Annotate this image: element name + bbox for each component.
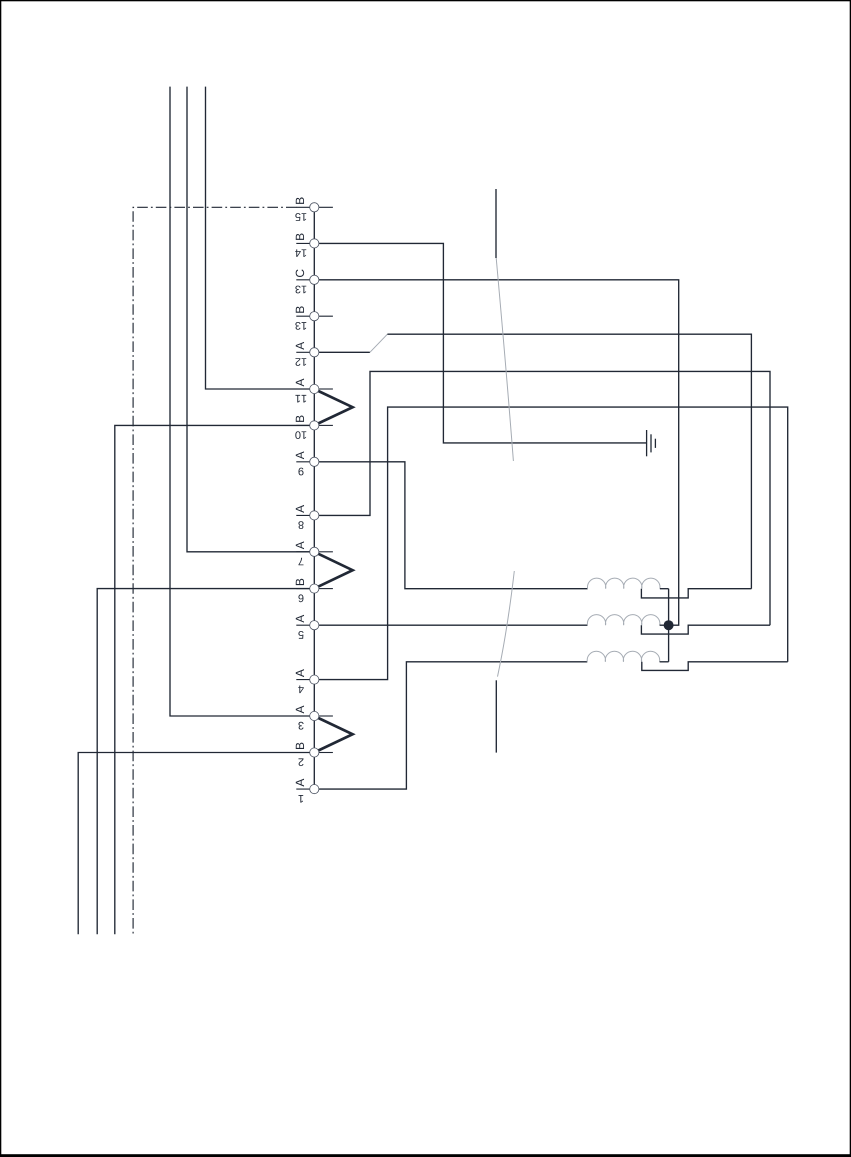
terminal TB1-4 (A) <box>296 669 319 693</box>
wire terminal 1 A to winding W3 left end <box>314 662 587 789</box>
winding W3 right lead to neutral link <box>660 661 669 663</box>
enclosure boundary (dash-dot chain line) <box>133 207 297 934</box>
terminal TB1-5 (A) <box>296 615 319 639</box>
connector chevron terminals 11-10 <box>318 389 353 425</box>
wire terminal 5 A to winding W2 left end <box>314 624 587 626</box>
wire terminal 8 A to winding W2 right end <box>314 371 770 625</box>
terminal TB1-14 (B) <box>295 234 319 257</box>
machine boundary arc (lower, faint) <box>498 571 515 677</box>
wire terminal 12 A to winding W1 right end <box>314 334 751 589</box>
terminal TB1-7 (A) <box>296 541 319 565</box>
terminal strip TB1 bus line <box>313 207 315 789</box>
wire terminal 14 B to ground <box>314 243 646 443</box>
terminal TB1-9 (A) <box>296 451 319 475</box>
machine boundary edge lower solid segment <box>495 680 497 752</box>
terminal TB1-3 (A) <box>296 706 319 730</box>
winding W2 (phase) coil <box>587 615 660 626</box>
terminal TB1-1 (A) <box>296 779 319 803</box>
winding W3 (phase) coil <box>587 651 660 662</box>
machine boundary arc (upper, faint) <box>496 258 513 461</box>
node star point junction <box>664 620 674 630</box>
wire W3 dip jog to T4 riser <box>642 662 788 671</box>
terminal TB1-13 (C) <box>295 269 319 293</box>
terminal TB1-10 (B) <box>295 416 319 439</box>
terminal TB1-6 (B) <box>296 579 319 602</box>
winding W2 right lead to star point <box>660 624 669 626</box>
wire terminal 2 (B) leftward feeder <box>78 753 314 935</box>
wire terminal 13 C to star point <box>314 280 678 625</box>
wire feeder L3 (to terminal 11) <box>206 87 315 389</box>
terminal TB1-12 (A) <box>295 342 318 366</box>
wire neutral link (W1-W2-W3 common) <box>668 589 670 662</box>
winding W1 right lead to neutral link <box>660 588 669 590</box>
winding W1 (phase) coil <box>587 578 660 589</box>
connector chevron terminals 3-2 <box>318 716 353 753</box>
wire terminal 9 A to winding W1 left end <box>314 462 587 589</box>
wire W1 dip jog to T12 riser <box>641 589 751 598</box>
terminal TB1-2 (B) <box>296 743 319 766</box>
wire feeder L1 (to terminal 3) <box>170 87 314 716</box>
machine boundary edge upper solid segment <box>495 189 497 258</box>
wire W2 dip jog to T8 riser <box>641 625 770 634</box>
wire terminal 4 A to winding W3 right end <box>314 407 787 679</box>
ground <box>647 430 656 456</box>
terminal TB1-13 (B) <box>295 306 333 329</box>
terminal TB1-8 (A) <box>296 505 319 529</box>
wire feeder L2 (to terminal 7) <box>187 87 314 552</box>
terminal TB1-15 (B) <box>295 197 333 220</box>
wire terminal 6 (B) leftward feeder <box>97 589 314 935</box>
terminal TB1-11 (A) <box>295 379 318 403</box>
connector chevron terminals 7-6 <box>318 552 353 589</box>
wire terminal 10 (B) leftward feeder <box>115 425 314 934</box>
